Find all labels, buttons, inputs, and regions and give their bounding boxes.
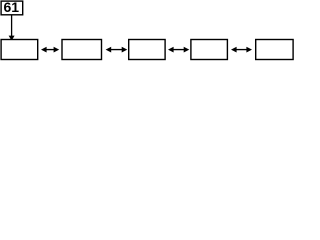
node label box 61 [1,1,23,15]
svg-text:61: 61 [4,0,20,15]
box 5 [256,40,293,60]
box 3 [129,40,165,60]
box 2 [62,40,102,60]
double arrow 1 [41,47,59,53]
box 4 [191,40,228,60]
double arrow 2 [106,47,128,53]
wire: vertical arrow from label box down to box 1 [11,15,13,36]
double arrow 4 [231,47,252,53]
box 1 [1,40,38,60]
double arrow 3 [168,47,189,53]
